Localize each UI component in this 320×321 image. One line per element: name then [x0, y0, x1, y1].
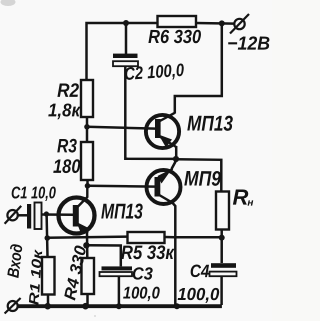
resistor R1 10k [42, 257, 55, 295]
wire C1 to base Q3 [42, 213, 73, 216]
wire node E to Rn top [176, 159, 221, 191]
node Rn bottom [219, 235, 225, 241]
svg-text:100,0: 100,0 [123, 283, 160, 302]
node R1 top [45, 235, 51, 241]
wire input node down to R1 [45, 214, 48, 257]
svg-text:МП13: МП13 [101, 199, 143, 223]
wire C3 top L-lead [86, 245, 120, 266]
svg-text:−12В: −12В [227, 34, 270, 55]
node R2/R3/base Q1 [84, 124, 90, 130]
transistor Q2 MP9 [147, 169, 181, 204]
svg-text:МП13: МП13 [187, 112, 233, 136]
transistor Q3 MP13 (bottom) [59, 186, 95, 234]
wire R3 bottom to node B [86, 180, 89, 186]
svg-text:R6 330: R6 330 [148, 27, 201, 48]
wire Rn bottom [220, 230, 223, 239]
svg-text:C1 10,0: C1 10,0 [11, 183, 56, 202]
svg-text:R5 33к: R5 33к [121, 242, 175, 264]
wire top rail [87, 23, 158, 80]
wire R5 right lead [165, 236, 176, 239]
wire input coupling line [18, 214, 27, 217]
terminal input top [5, 206, 22, 224]
wire R2 to R3 [86, 117, 89, 142]
node rail/R1 [44, 303, 51, 310]
wire bottom rail [18, 304, 222, 308]
svg-text:C4: C4 [190, 261, 210, 281]
wire Q2 collector down to bottom rail [173, 203, 176, 306]
node R3/collector Q3/base Q2 [85, 183, 91, 189]
wire Rn node to emitter line [175, 236, 221, 239]
node -12V junction [219, 20, 225, 26]
wire base Q2 (MP9) [88, 185, 156, 188]
svg-text:1,8к: 1,8к [48, 99, 81, 120]
resistor R5 33k [128, 232, 165, 243]
resistor R3 180 [81, 142, 93, 180]
wire C2 top lead [125, 23, 128, 54]
node rail/C3 [116, 303, 122, 309]
svg-text:R3: R3 [57, 135, 77, 157]
node E emitter Q1 [173, 156, 179, 162]
wire -12V node down [175, 23, 222, 113]
wire Q3 emitter down to R4 [86, 233, 89, 258]
svg-text:100,0: 100,0 [177, 284, 219, 304]
capacitor C4 100.0 [210, 263, 237, 276]
svg-text:C3: C3 [132, 263, 153, 283]
capacitor C3 100.0 [100, 266, 133, 276]
wire R1 bottom lead [47, 295, 50, 306]
resistor R6 330 [158, 16, 197, 27]
wire C4 leads [220, 238, 223, 263]
resistor Rn load [216, 192, 229, 230]
capacitor C1 10.0 [27, 203, 42, 230]
node emitter Q3/R4/C3 [83, 242, 89, 248]
wire C3 bottom lead [118, 276, 121, 305]
wire R6 right to -12V node [196, 22, 234, 25]
node rail/Q2 collector [174, 303, 180, 309]
resistor R4 330 [82, 258, 95, 294]
svg-text:МП9: МП9 [184, 168, 221, 191]
node rail/R4 [82, 303, 89, 310]
scan smudge top-left corner [1, 0, 16, 6]
capacitor C2 100.0 [113, 54, 138, 67]
wire C2 bottom lead [125, 66, 176, 159]
svg-text:180: 180 [53, 156, 81, 178]
svg-text:C2 100,0: C2 100,0 [123, 60, 184, 84]
wire R4 bottom lead [86, 294, 89, 305]
wire Q2 emitter up to node E [172, 160, 176, 170]
wire bias line R1 to R5 [47, 237, 127, 238]
terminal -12V [230, 14, 249, 34]
wire base Q1 (top MP13) [87, 127, 156, 129]
transistor Q1 MP13 (top) [146, 113, 179, 148]
node input/C1/R1 [44, 211, 49, 216]
resistor R2 1.8k [81, 80, 93, 117]
node top rail / C2 [123, 20, 129, 26]
terminal input bottom (common) [5, 298, 21, 314]
wire Q1 emitter to node E [175, 146, 178, 160]
